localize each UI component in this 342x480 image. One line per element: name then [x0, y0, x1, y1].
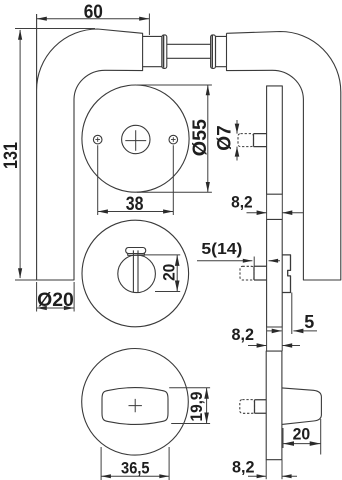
dim o7 lines [236, 120, 238, 161]
collar left [143, 36, 162, 66]
dim 19,9 lines [169, 388, 210, 424]
wc rosette side view 2 [267, 219, 283, 327]
dim 5(14) lines [197, 257, 280, 267]
arrowheads dim 20 wc [175, 255, 180, 266]
svg-text:20: 20 [159, 264, 178, 281]
screw right [169, 135, 178, 144]
svg-text:Ø7: Ø7 [215, 125, 236, 151]
dim o55 lines [137, 85, 212, 192]
svg-text:19,9: 19,9 [187, 392, 206, 422]
thumbturn circle [118, 255, 156, 293]
svg-text:60: 60 [84, 2, 103, 23]
dim 8,2 third lines [248, 460, 297, 480]
arrowheads dim o7 [235, 124, 240, 134]
collar right [216, 36, 227, 66]
dim 60 lines [37, 14, 150, 36]
svg-text:8,2: 8,2 [232, 326, 255, 344]
dim 20 wc lines [139, 255, 180, 292]
svg-text:38: 38 [126, 194, 144, 215]
bottom stem side solid [255, 400, 267, 414]
center cross [125, 130, 146, 151]
thumbturn slot [133, 250, 138, 292]
svg-text:20: 20 [293, 425, 311, 444]
lever handle right outline [227, 32, 341, 281]
arrowheads dim 5 [272, 329, 282, 334]
svg-text:5: 5 [304, 312, 314, 332]
dim 38 lines [98, 145, 174, 215]
svg-text:131: 131 [0, 142, 22, 169]
arrowheads dim 36,5 [101, 474, 111, 478]
arrowheads dim 60 [37, 17, 47, 21]
lever handle left outline [37, 14, 143, 280]
dim 5 lines [267, 293, 317, 335]
flange right [211, 35, 216, 69]
svg-text:36,5: 36,5 [121, 459, 150, 478]
olive knob side view [282, 388, 322, 425]
arrowheads dim 8,2 third [257, 474, 267, 478]
arrowheads dim o20 [37, 306, 47, 310]
arrowheads dim 8,2 first [257, 210, 267, 215]
spindle stem side (hidden part dashed) [238, 134, 254, 147]
bottom rosette circle [82, 349, 189, 456]
bottom stem side dashed [240, 400, 255, 414]
dim o20 lines [37, 282, 75, 312]
arrowheads dim 131 [18, 30, 22, 40]
svg-text:8,2: 8,2 [232, 458, 255, 476]
bottom rosette side view 3 [266, 351, 282, 460]
dim 8,2 first lines [247, 194, 304, 219]
rosette side view 1 [267, 86, 283, 194]
arrowheads dim 8,2 second [257, 343, 267, 348]
svg-text:Ø55: Ø55 [190, 119, 211, 157]
svg-text:Ø20: Ø20 [37, 289, 74, 311]
svg-text:5(14): 5(14) [201, 241, 242, 258]
arrowheads dim 20 bottom [283, 441, 294, 446]
wc stem side solid [254, 266, 267, 280]
arrowheads dim 5(14) [243, 259, 253, 263]
handle neck circle [122, 125, 150, 153]
bottom center cross [129, 399, 142, 412]
wc stem side dashed [240, 266, 254, 280]
dim 36,5 lines [101, 447, 169, 480]
screw left [93, 135, 102, 144]
turn cap side view with notch [282, 255, 290, 293]
dim 131 lines [15, 29, 95, 281]
arrowheads dim o55 [206, 85, 210, 95]
olive knob front [102, 388, 168, 425]
thumbturn cap [126, 248, 146, 254]
spindle stem side (solid part) [254, 134, 267, 147]
spindle [167, 44, 211, 58]
dim 20 bottom lines [283, 419, 321, 455]
rosette circle top view [82, 85, 189, 192]
flange left [162, 35, 167, 69]
arrowheads dim 19,9 [204, 388, 209, 399]
dim 8,2 second lines [248, 327, 300, 351]
arrowheads dim 38 [98, 209, 108, 213]
svg-text:8,2: 8,2 [231, 193, 253, 211]
wc rosette circle [82, 220, 189, 327]
